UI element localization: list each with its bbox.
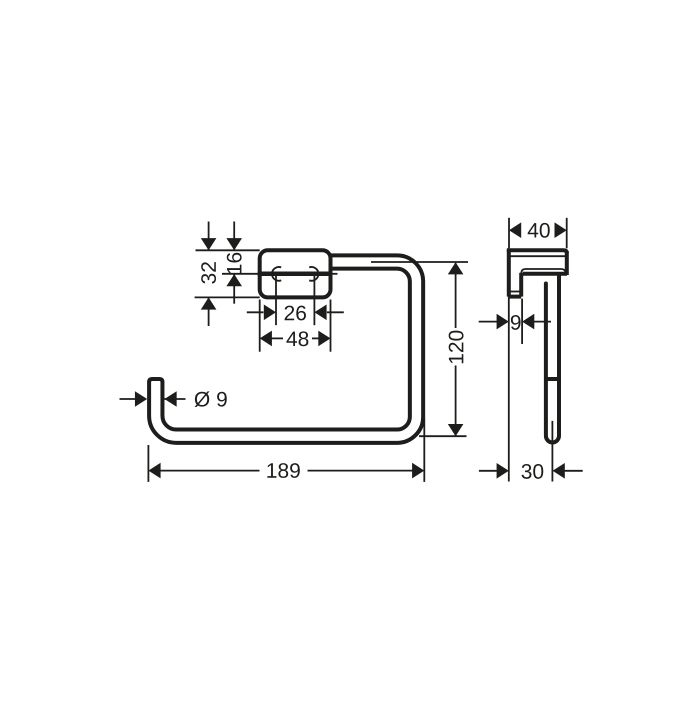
- extension line bottom of block (y=297.4): [195, 296, 260, 298]
- side lip bottom: [509, 295, 521, 299]
- dim 30 right arrow (points left): [553, 463, 565, 479]
- dim 189 right arrow (points right): [412, 463, 424, 479]
- dim 120 top arrow (points up): [448, 262, 464, 274]
- side plate top surface: [509, 250, 567, 253]
- dim 9 side right arrow (points left): [522, 314, 534, 330]
- label 48: [286, 331, 308, 346]
- side wall face (thick): [507, 250, 511, 296]
- dim 32 line upper tail: [208, 222, 210, 251]
- dim 120 extension lines: [371, 261, 468, 263]
- dim 16 line upper tail: [233, 222, 235, 251]
- dim 48 left arrow (points left): [260, 331, 272, 347]
- block mid line (thick across block): [258, 272, 333, 277]
- towel ring outline (front view): [149, 255, 423, 443]
- dia9 right arrow (points left): [164, 391, 176, 407]
- dim 30 tails: [479, 470, 497, 472]
- dim dia9 tails: [120, 398, 137, 400]
- dim 40 left arrow (points left): [509, 222, 521, 238]
- dim 120 bottom arrow (points down): [448, 424, 464, 436]
- arrowheads front: dim 32 down at top: [201, 238, 217, 250]
- side thin lip line: [509, 291, 520, 293]
- dim 48 line segments: [270, 337, 283, 339]
- side plate right face: [565, 251, 569, 275]
- dim 26 left arrow (points right): [264, 305, 276, 321]
- dim 16 up at bottom: [226, 274, 242, 286]
- dim 32 line lower tail: [208, 298, 210, 326]
- label 26: [285, 306, 306, 321]
- label 16: [227, 253, 242, 274]
- side front face: [519, 273, 523, 297]
- label 40: [528, 223, 550, 238]
- dim 30 left arrow (points right): [497, 463, 509, 479]
- dim 40 extension lines: [508, 218, 510, 249]
- dim 16 line lower tail: [233, 274, 235, 304]
- label 30: [522, 464, 544, 479]
- dia9 left arrow (points right): [135, 391, 147, 407]
- dim 189 extension lines: [147, 445, 149, 482]
- block mid line thin extensions: [222, 273, 258, 275]
- tube attachment arc mark left: [272, 267, 281, 281]
- dim 9 side right extension line: [521, 299, 523, 344]
- side tube joint line: [544, 377, 561, 381]
- side tube center line: [551, 421, 553, 482]
- side wall face thin extension: [508, 297, 510, 482]
- dim 26 line tails: [247, 311, 264, 313]
- dim 189 left arrow (points left): [148, 463, 160, 479]
- dim 9 side left arrow (points right): [497, 314, 509, 330]
- side tube outline: [546, 274, 559, 442]
- tube attachment arc mark right: [309, 267, 318, 281]
- dim 120 line segments: [455, 263, 457, 328]
- label 32: [201, 262, 216, 284]
- label 9 side: [511, 315, 521, 330]
- mounting block (front view): [260, 250, 331, 297]
- label 189: [267, 463, 299, 478]
- dim 32 up at bottom: [201, 297, 217, 309]
- label dia 9: [195, 391, 227, 407]
- dim 48 extension lines: [259, 300, 261, 352]
- extension line top of block (y=250.3): [196, 249, 260, 251]
- dim 16 down at top: [226, 238, 242, 250]
- dim 26 right arrow (points left): [314, 305, 326, 321]
- side thin inner bottom line of arm: [521, 269, 565, 274]
- dim 26 extension lines: [275, 275, 277, 326]
- dim 189 line segments: [160, 470, 260, 472]
- label 120: [449, 331, 464, 364]
- side thin inner top line: [510, 255, 567, 257]
- dim 9 side: tails: [479, 321, 497, 323]
- side arm bottom: [523, 272, 567, 276]
- dim 40 right arrow (points right): [555, 222, 567, 238]
- dim 48 right arrow (points right): [318, 331, 330, 347]
